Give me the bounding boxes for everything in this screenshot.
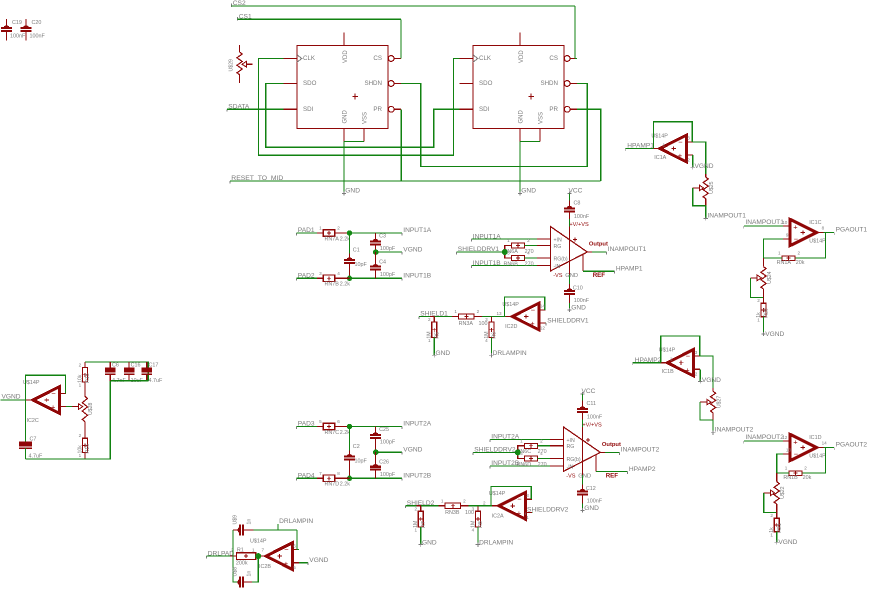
svg-text:2.2k: 2.2k [340,482,350,488]
svg-text:IC1B: IC1B [662,369,674,375]
svg-text:SHIELDDRV2: SHIELDDRV2 [527,507,569,514]
svg-text:-IN: -IN [554,264,561,270]
svg-text:RN3B: RN3B [445,510,460,516]
svg-text:2: 2 [463,498,466,503]
svg-text:RN1B: RN1B [783,475,798,481]
svg-text:270: 270 [525,262,534,268]
svg-text:-IN: -IN [567,464,574,470]
svg-text:R20: R20 [764,308,770,318]
svg-text:2: 2 [415,506,418,511]
svg-text:VGND: VGND [765,331,784,338]
svg-text:GND: GND [571,305,586,312]
svg-text:−: − [531,305,536,314]
svg-text:C26: C26 [379,459,389,465]
svg-text:10: 10 [782,220,788,225]
svg-text:C4: C4 [379,259,386,265]
svg-text:IC2D: IC2D [505,324,517,330]
svg-text:1: 1 [670,357,673,362]
svg-text:RG(b): RG(b) [567,457,581,463]
svg-text:RN7A: RN7A [325,236,340,242]
svg-text:C19: C19 [12,20,22,26]
svg-text:INPUT1A: INPUT1A [473,233,501,240]
svg-text:-VS: -VS [566,474,576,480]
svg-text:INPUT2A: INPUT2A [491,434,519,441]
svg-text:PR: PR [549,106,558,113]
svg-text:C16: C16 [131,363,141,369]
svg-text:C1: C1 [353,247,360,253]
svg-text:RN7D: RN7D [325,482,340,488]
svg-text:1: 1 [441,498,444,503]
svg-text:U$22: U$22 [780,486,786,499]
svg-text:2: 2 [695,372,698,377]
svg-text:SHIELDDRV2: SHIELDDRV2 [474,447,516,454]
svg-text:100nF: 100nF [574,214,590,220]
svg-text:100pF: 100pF [380,246,396,252]
svg-text:1: 1 [252,548,255,553]
svg-text:SHDN: SHDN [540,80,558,87]
svg-text:6: 6 [337,419,340,424]
svg-text:2: 2 [798,251,801,256]
svg-text:8: 8 [822,225,825,230]
svg-text:INPUT2A: INPUT2A [403,421,431,428]
svg-text:INPUT1B: INPUT1B [403,273,431,280]
svg-text:1: 1 [520,438,523,443]
svg-text:C20: C20 [32,20,42,26]
svg-text:2: 2 [804,466,807,471]
svg-text:REF: REF [606,473,619,480]
svg-text:U$14P: U$14P [809,454,826,460]
svg-text:IC1A: IC1A [654,155,666,161]
svg-text:2: 2 [687,158,690,163]
svg-text:VGND: VGND [403,446,422,453]
svg-text:2: 2 [483,500,486,505]
svg-text:1: 1 [415,528,418,533]
svg-text:2: 2 [428,317,431,322]
svg-text:INPUT2B: INPUT2B [403,473,431,480]
svg-text:4: 4 [527,251,530,256]
svg-text:2: 2 [757,298,760,303]
svg-text:U$29: U$29 [229,59,235,72]
svg-text:SHIELDDRV1: SHIELDDRV1 [547,317,589,324]
svg-text:−: − [284,545,289,554]
svg-text:+IN: +IN [554,237,562,243]
svg-text:1: 1 [663,142,666,147]
svg-text:100nF: 100nF [587,498,603,504]
svg-text:VSS: VSS [539,112,545,124]
svg-text:20k: 20k [796,260,805,266]
svg-text:4: 4 [485,338,488,343]
svg-text:1n: 1n [247,571,253,577]
svg-text:2.2k: 2.2k [340,430,350,436]
svg-text:R21: R21 [777,523,783,533]
svg-text:GND: GND [343,110,349,124]
svg-text:2.2k: 2.2k [340,282,350,288]
svg-text:3: 3 [472,506,475,511]
svg-text:-VS: -VS [553,273,563,279]
svg-text:DRLAMPIN: DRLAMPIN [479,539,513,546]
svg-text:HPAMP1: HPAMP1 [616,265,643,272]
svg-text:−: − [51,389,56,398]
svg-text:SDI: SDI [479,106,490,113]
svg-text:R8: R8 [478,521,484,528]
svg-text:3: 3 [695,350,698,355]
svg-text:10pF: 10pF [355,262,368,268]
svg-text:SDO: SDO [303,80,317,87]
svg-text:+: + [793,438,798,447]
svg-text:CLK: CLK [303,55,316,62]
svg-text:U$8: U$8 [232,567,238,577]
svg-text:VGND: VGND [702,377,721,384]
svg-text:1: 1 [428,338,431,343]
svg-text:C6: C6 [112,363,119,369]
svg-text:DRLAMPIN: DRLAMPIN [493,350,527,357]
svg-text:U$14P: U$14P [809,239,826,245]
svg-text:INAMPOUT2: INAMPOUT2 [621,447,660,454]
svg-text:−: − [794,450,799,459]
svg-text:R1: R1 [237,548,244,554]
svg-text:3: 3 [485,317,488,322]
svg-text:VGND: VGND [403,246,422,253]
svg-text:IC2B: IC2B [259,564,271,570]
svg-text:100pF: 100pF [380,272,396,278]
svg-text:SDO: SDO [479,80,493,87]
svg-text:R5: R5 [435,332,441,339]
svg-text:2: 2 [79,433,82,438]
svg-text:HPAMP2: HPAMP2 [629,466,656,473]
svg-text:1: 1 [526,515,529,520]
svg-text:INAMPOUT1: INAMPOUT1 [608,246,647,253]
svg-text:INPUT2B: INPUT2B [491,460,519,467]
svg-text:1: 1 [79,453,82,458]
svg-text:6: 6 [293,543,296,548]
svg-text:1n: 1n [247,519,253,525]
svg-text:C10: C10 [573,286,583,292]
svg-text:RN7C: RN7C [325,430,340,436]
svg-text:IC2C: IC2C [27,418,39,424]
svg-text:U$25: U$25 [709,181,715,194]
svg-text:10pF: 10pF [355,459,368,465]
svg-text:DRLAMPIN: DRLAMPIN [279,518,313,525]
svg-text:PGAOUT2: PGAOUT2 [836,442,868,449]
svg-text:INAMPOUT2: INAMPOUT2 [715,427,754,434]
svg-text:7: 7 [262,548,265,553]
svg-text:3: 3 [319,271,322,276]
svg-text:RN1A: RN1A [777,260,792,266]
svg-text:12: 12 [540,326,546,331]
svg-text:HPAMP2: HPAMP2 [635,357,662,364]
svg-text:GND: GND [345,187,360,194]
svg-text:SHIELDDRV1: SHIELDDRV1 [458,246,500,253]
svg-text:−: − [517,495,522,504]
svg-text:+: + [793,223,798,232]
svg-text:GND: GND [565,273,578,279]
svg-text:1: 1 [507,238,510,243]
svg-text:+: + [517,509,522,518]
svg-text:2: 2 [477,309,480,314]
svg-text:+V/+VS: +V/+VS [582,422,602,428]
svg-text:C2: C2 [353,444,360,450]
svg-text:+IN: +IN [567,438,575,444]
svg-text:C17: C17 [149,363,159,369]
svg-text:2: 2 [337,226,340,231]
svg-text:1: 1 [778,251,781,256]
svg-text:IC2A: IC2A [492,514,504,520]
svg-text:+: + [51,403,56,412]
svg-text:C3: C3 [379,233,386,239]
svg-text:VGND: VGND [778,539,797,546]
svg-text:CLK: CLK [479,55,492,62]
svg-text:R15: R15 [85,373,91,383]
svg-text:+: + [685,365,690,374]
svg-text:IC1C: IC1C [809,220,821,226]
svg-text:U$14P: U$14P [250,539,267,545]
svg-text:U$27: U$27 [716,396,722,409]
svg-text:2: 2 [540,438,543,443]
svg-text:1: 1 [785,466,788,471]
svg-text:INPUT1A: INPUT1A [403,227,431,234]
svg-text:INAMPOUT2: INAMPOUT2 [745,434,784,441]
svg-text:CS: CS [373,55,382,62]
svg-text:GND: GND [584,505,599,512]
svg-text:U$9: U$9 [232,515,238,525]
svg-text:13: 13 [497,311,503,316]
svg-text:GND: GND [519,110,525,124]
svg-text:100nF: 100nF [10,33,26,39]
svg-text:INAMPOUT1: INAMPOUT1 [707,213,746,220]
svg-text:SDI: SDI [303,106,314,113]
svg-text:C25: C25 [379,427,389,433]
svg-text:SHDN: SHDN [364,80,382,87]
svg-text:1: 1 [319,226,322,231]
svg-text:RN6B: RN6B [504,262,519,268]
svg-text:C11: C11 [587,401,597,407]
svg-text:+: + [530,319,535,328]
svg-text:INAMPOUT1: INAMPOUT1 [745,219,784,226]
svg-text:7: 7 [319,471,322,476]
svg-text:2: 2 [770,513,773,518]
svg-text:VGND: VGND [695,163,714,170]
svg-text:4: 4 [472,528,475,533]
svg-text:3: 3 [526,493,529,498]
svg-text:2.2k: 2.2k [340,236,350,242]
svg-text:200k: 200k [236,561,248,567]
svg-text:1: 1 [454,309,457,314]
svg-text:9: 9 [786,233,789,238]
svg-text:GND: GND [422,539,437,546]
svg-text:RG: RG [567,444,575,450]
svg-text:PR: PR [373,106,382,113]
svg-text:RN6D: RN6D [517,462,532,468]
svg-text:CS: CS [549,55,558,62]
svg-text:−: − [794,235,799,244]
svg-text:4: 4 [540,451,543,456]
svg-text:14: 14 [822,440,828,445]
svg-text:VDD: VDD [519,50,525,63]
svg-text:C12: C12 [586,486,596,492]
svg-text:1: 1 [757,317,760,322]
svg-text:1: 1 [770,532,773,537]
svg-text:R6: R6 [492,332,498,339]
svg-text:REF: REF [593,272,606,279]
svg-text:1: 1 [79,383,82,388]
svg-text:13: 13 [786,448,792,453]
svg-text:IC1D: IC1D [809,435,821,441]
svg-text:RG(b): RG(b) [554,257,568,263]
svg-text:270: 270 [538,462,547,468]
svg-text:U$28: U$28 [88,402,94,415]
svg-text:GND: GND [436,350,451,357]
svg-text:U$24: U$24 [767,271,773,284]
svg-text:INPUT1B: INPUT1B [473,260,501,267]
svg-text:5: 5 [319,419,322,424]
svg-text:VSS: VSS [363,112,369,124]
svg-text:VGND: VGND [309,557,328,564]
svg-text:PGAOUT1: PGAOUT1 [836,227,868,234]
svg-text:14: 14 [540,304,546,309]
svg-text:4: 4 [337,271,340,276]
svg-text:100nF: 100nF [587,414,603,420]
svg-text:GND: GND [521,187,536,194]
svg-text:100pF: 100pF [380,472,396,478]
svg-text:RN3A: RN3A [459,321,474,327]
svg-text:12: 12 [782,435,788,440]
svg-text:RG: RG [554,244,562,250]
svg-text:100nF: 100nF [30,33,46,39]
svg-text:C8: C8 [574,200,581,206]
svg-text:8: 8 [337,471,340,476]
svg-text:100pF: 100pF [380,440,396,446]
svg-text:2: 2 [79,363,82,368]
svg-text:GND: GND [578,474,591,480]
svg-text:+: + [284,559,289,568]
svg-text:+V/+VS: +V/+VS [569,222,589,228]
svg-text:20k: 20k [803,475,812,481]
svg-text:Output: Output [589,242,608,248]
svg-text:2: 2 [527,238,530,243]
svg-text:VDD: VDD [343,50,349,63]
svg-text:RN7B: RN7B [325,282,340,288]
svg-text:5: 5 [293,565,296,570]
svg-text:Output: Output [602,442,621,448]
svg-text:R7: R7 [421,521,427,528]
svg-text:+: + [678,151,683,160]
svg-text:3: 3 [687,136,690,141]
svg-text:R16: R16 [85,444,91,454]
svg-text:4.7uF: 4.7uF [149,378,163,384]
svg-text:100nF: 100nF [574,298,590,304]
svg-text:−: − [686,352,691,361]
svg-text:−: − [678,137,683,146]
svg-text:HPAMP1: HPAMP1 [627,143,654,150]
